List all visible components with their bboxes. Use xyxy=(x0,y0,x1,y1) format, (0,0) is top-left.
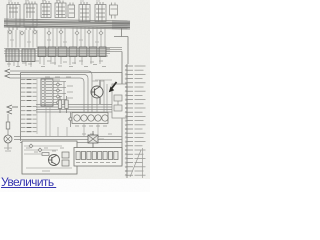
mid bus wires xyxy=(36,105,112,113)
transistor array strip A1 xyxy=(72,113,108,124)
switch block SA1 xyxy=(76,152,118,160)
long wires mid-low xyxy=(14,137,122,143)
transistor VT1 xyxy=(91,80,103,104)
SA1 labels xyxy=(76,162,116,164)
lower bus wires xyxy=(4,48,122,57)
relay box K2 xyxy=(62,152,69,166)
connector label table wedge xyxy=(142,148,144,178)
IC block D2 xyxy=(24,2,37,31)
wire bus-end step-down xyxy=(114,28,128,65)
wire risers to bottom box xyxy=(46,106,122,142)
transistor VT2 xyxy=(48,155,60,166)
IC block D11 (small, top right) xyxy=(110,3,118,19)
diode VD3 xyxy=(38,148,42,152)
plug arrow XP2 xyxy=(7,105,18,114)
main board outline xyxy=(21,73,123,166)
relay box K1 xyxy=(112,84,127,118)
discrete symbols row below upper bus xyxy=(8,28,105,48)
bottom module outline xyxy=(22,141,122,174)
components inside bottom module xyxy=(24,146,72,168)
IC block D5 xyxy=(68,3,75,18)
diode VD2 xyxy=(29,144,33,148)
IC block D6 xyxy=(79,2,90,22)
wires right of D8 xyxy=(53,82,66,105)
wires from plug with corner bends xyxy=(10,71,92,112)
plug arrow XP1 xyxy=(5,69,10,78)
IC block D1 xyxy=(7,2,20,30)
stubs below lower band xyxy=(9,57,100,68)
edge connector X1 (left) xyxy=(21,78,38,134)
IC block D10 (row 2 left) xyxy=(22,49,35,62)
HL1 label xyxy=(4,148,12,151)
IC block D9 (row 2 left) xyxy=(6,49,19,62)
IC row inside lower band xyxy=(38,47,106,57)
tuning arrow xyxy=(109,82,117,92)
IC block D3 xyxy=(41,1,51,18)
resistor R3 xyxy=(42,153,49,156)
data bus wires (upper band) xyxy=(4,19,130,30)
label noise right of D8 xyxy=(54,80,73,98)
wire right riser xyxy=(121,52,123,85)
capacitor block C1 xyxy=(88,131,104,148)
label noise above top row xyxy=(8,0,100,2)
IC block D7 xyxy=(95,2,106,22)
diode symbols on stubs xyxy=(8,30,103,35)
VT2 label xyxy=(42,170,50,172)
strip pin labels xyxy=(75,125,107,127)
resistor R1 xyxy=(58,96,61,113)
wire left chain xyxy=(7,114,9,150)
VT1 label xyxy=(92,80,104,82)
diode VD1 xyxy=(69,112,73,127)
IC block D8 xyxy=(41,79,53,106)
enlarge link xyxy=(1,175,56,189)
label noise in module xyxy=(26,134,112,152)
edge connector X2 (right) xyxy=(125,64,145,178)
wire below module xyxy=(74,165,122,167)
label noise mid row xyxy=(10,40,99,42)
wires near VT1 xyxy=(95,80,112,112)
resistor R4 xyxy=(65,96,68,113)
lamp HL1 xyxy=(4,135,12,143)
scan background xyxy=(0,0,150,179)
resistor R2 xyxy=(6,122,10,129)
label noise below lower band xyxy=(7,61,106,77)
IC block D4 xyxy=(55,1,66,18)
diode row right of D8 xyxy=(56,83,60,105)
